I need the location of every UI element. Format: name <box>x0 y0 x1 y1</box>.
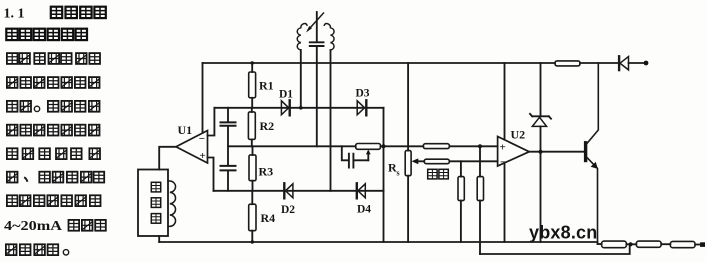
resistor R1 <box>249 63 274 108</box>
potentiometer RP1 body <box>356 144 381 150</box>
svg-text:D3: D3 <box>356 88 370 100</box>
node: bottom output terminal <box>700 242 705 247</box>
wire: top supply bus (left span) <box>203 62 556 64</box>
svg-text:+: + <box>200 150 206 162</box>
zero-adjust potentiometer 调零 <box>412 158 450 179</box>
svg-text:R3: R3 <box>259 165 274 179</box>
wire: U2 positive supply from top bus <box>504 63 506 140</box>
zener diode VD1 <box>530 63 551 242</box>
wire: top bus (right span to series resistor/diode) <box>580 62 619 64</box>
wire: rail1 (D1/D3 row) <box>214 107 383 109</box>
svg-text:−: − <box>199 133 205 145</box>
wire: oscillator bottom to ground bus <box>158 236 160 242</box>
caption title line 2: 压变送器电路 <box>6 29 87 40</box>
wire: right electrode down to rail3 <box>330 50 332 191</box>
svg-text:R1: R1 <box>259 79 274 93</box>
wire: U1 non-inverting input jog to rail3 <box>208 158 214 191</box>
resistor R6 <box>458 161 464 242</box>
wire: rail3 (D2/D4 row) <box>214 190 384 192</box>
caption body line 8: 号、电流控制器 <box>7 172 104 183</box>
junction: zener line on output wire <box>539 150 543 154</box>
wire: R10 to R11 <box>661 243 670 245</box>
resistor R4 <box>249 191 275 242</box>
resistor R9 <box>602 241 627 248</box>
trimmer capacitor C3 branch <box>342 146 369 167</box>
differential capacitor sensor: left electrode coil <box>297 24 307 50</box>
junction: output chain node <box>629 242 633 246</box>
diode D4 (points left) <box>357 183 372 215</box>
caption body line 4: 器和电流控制器 <box>7 77 100 88</box>
resistor R11 <box>670 241 695 247</box>
capacitor C2 <box>221 146 236 191</box>
wire: left electrode down to rail1 <box>300 50 302 108</box>
resistor R8 (top bus series) <box>555 61 580 66</box>
junction: R4 at bottom bus <box>251 240 254 243</box>
junction R1 top <box>251 61 254 64</box>
svg-text:D4: D4 <box>357 204 371 216</box>
op-amp U1 <box>176 123 208 163</box>
differential capacitor sensor: right electrode coil <box>324 24 334 50</box>
op-amp U2 <box>498 128 530 169</box>
caption body line 9: 将电信号变换为 <box>7 195 101 206</box>
capacitor C1 <box>221 108 236 147</box>
resistor Rs with feed line from top bus <box>388 63 411 242</box>
svg-text:U2: U2 <box>511 128 526 142</box>
diode D1 <box>279 89 293 116</box>
svg-text:D2: D2 <box>281 204 295 216</box>
resistor R10 <box>636 241 661 247</box>
wire: lower return bus (bus2) <box>480 244 630 254</box>
oscillator block 振荡器 <box>138 170 168 237</box>
caption body line 3: 主要由信号变换 <box>7 53 100 64</box>
wire: R11 to bottom terminal <box>695 244 700 246</box>
resistor R2 <box>248 108 274 147</box>
wire: node to R10 <box>633 243 637 245</box>
svg-text:s: s <box>397 169 400 178</box>
caption body line 11: 输出信号。 <box>6 244 69 255</box>
svg-text:R2: R2 <box>260 119 275 133</box>
resistor R5 (to U2 +) <box>423 144 449 149</box>
caption title line 1: 1.1 电容式差 <box>4 7 106 22</box>
wire: rail2 (middle row) <box>228 145 498 147</box>
node: top output terminal <box>644 61 649 66</box>
wire: U1 inverting input jog to rail1 <box>208 108 215 136</box>
wire: zero-adjust row to U2 inverting input <box>449 160 497 162</box>
svg-text:ybx8.cn: ybx8.cn <box>529 223 597 243</box>
svg-text:+: + <box>500 142 506 154</box>
caption body line 5: 组成。信号变换 <box>7 101 100 112</box>
wire: D3 output corner down (node line x383.5) <box>383 108 385 242</box>
wire: top bus drop to U1 upper edge <box>202 63 204 133</box>
wire: emitter to output chain <box>598 243 602 245</box>
diode D3 <box>356 88 370 116</box>
caption body line 7: 容变换成电信 (justified) <box>7 148 100 159</box>
wire: R9 to node <box>626 243 628 245</box>
potentiometer RP1 wiper arrow <box>366 150 371 161</box>
caption body line 10: 4~20mA 的直流 <box>4 218 106 233</box>
svg-text:1. 1: 1. 1 <box>4 7 25 22</box>
svg-text:4~20mA: 4~20mA <box>4 218 62 233</box>
diode D5 (top right, points left) <box>619 56 644 70</box>
caption body line 6: 器主要将差动电 <box>7 125 100 136</box>
wire: bottom bus (bus1) <box>159 241 597 243</box>
junction: R7 tap on + wire <box>478 144 482 148</box>
resistor R7 <box>477 146 483 254</box>
junction: left sensor line on rail1 <box>299 106 303 110</box>
wire: U2 negative supply to bottom bus <box>504 163 506 242</box>
junction: rail2 / x383.5 <box>382 144 386 148</box>
sensor movable-plate arrow <box>306 13 324 33</box>
svg-text:U1: U1 <box>178 123 193 137</box>
wire: U1 output down to oscillator <box>159 147 176 170</box>
transistor Q1 (NPN) <box>584 63 598 244</box>
diode D2 (points left) <box>281 183 295 216</box>
resistor R3 <box>249 146 273 191</box>
svg-text:D1: D1 <box>279 89 293 101</box>
svg-text:R4: R4 <box>261 211 276 225</box>
sensor centre plate capacitor <box>310 12 324 146</box>
wire: U2 output to transistor base <box>529 151 584 153</box>
inductor L1 (oscillator coupling coil) <box>168 181 176 226</box>
